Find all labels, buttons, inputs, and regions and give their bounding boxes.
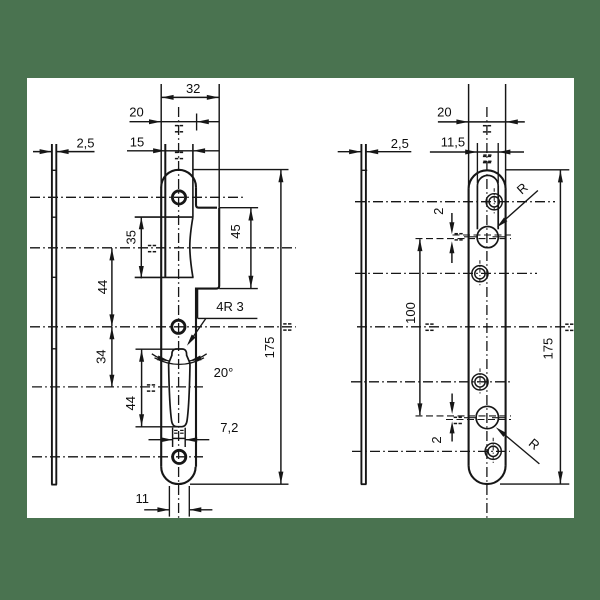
dim 175 right bottom extension: [500, 483, 569, 485]
white drawing sheet: [27, 78, 574, 518]
right side view: strip left edge: [360, 144, 362, 484]
screw hole 3 vertical centermark: [479, 368, 481, 395]
screw hole 4 outer: [485, 443, 501, 459]
dim 20 left arrow: [149, 119, 161, 124]
right centerline screw3: [351, 381, 512, 383]
right centerline screw4: [352, 450, 510, 452]
eq mark right CL middle: [425, 324, 433, 330]
dim 11 left arrow: [157, 507, 169, 512]
screw hole middle: [172, 320, 185, 333]
svg-text:175: 175: [540, 338, 555, 360]
dim 2 top tail below: [451, 253, 453, 264]
dim 35 bottom arrow: [139, 266, 144, 278]
left side view: strip left edge: [51, 144, 53, 485]
dim 100 top arrow: [417, 239, 422, 251]
R top leader: [500, 191, 538, 225]
svg-text:2: 2: [429, 436, 444, 443]
latch cutout bottom edge + 35-ext: [135, 276, 194, 278]
dim 20 right-view right tail: [506, 121, 525, 123]
svg-text:4R 3: 4R 3: [216, 299, 243, 314]
dim 2 bottom down arrow: [450, 402, 455, 414]
dim 20 right arrow: [197, 119, 209, 124]
screw hole 2 vertical centermark: [479, 260, 481, 287]
dim 20 extension stub: [196, 114, 198, 131]
dim 175 bottom extension: [190, 483, 289, 485]
dim 32 right arrow: [207, 95, 219, 100]
dim 11,5 line: [477, 151, 498, 153]
svg-text:2,5: 2,5: [391, 136, 409, 151]
dim 100 bottom arrow: [417, 403, 422, 415]
left centerline hole 3: [32, 456, 203, 458]
circle1 mid hatch right: [493, 236, 506, 238]
svg-text:11,5: 11,5: [441, 134, 465, 149]
dim 2,5 left arrow: [40, 149, 52, 154]
left centerline hole 2: [30, 326, 296, 328]
eq mark vCL upper: [175, 126, 183, 132]
dim 44 lower top arrow: [139, 350, 144, 362]
latch cutout right edge + 15-ext: [192, 144, 194, 217]
right centerline screw2: [355, 272, 537, 274]
svg-text:32: 32: [186, 81, 200, 96]
dim 32 right extension: [218, 84, 220, 208]
4R3 callout underline: [198, 317, 258, 319]
dim 7,2 right tail: [186, 439, 210, 441]
dim 11 right arrow: [189, 507, 201, 512]
dim 175 right top extension: [506, 169, 569, 171]
slot tab bottom edge: [173, 437, 186, 439]
screw hole 1 inner: [489, 197, 499, 207]
eq mark right vCL upper: [483, 126, 491, 132]
dim 175 line: [280, 170, 282, 484]
bolt slot cutout: [169, 349, 190, 427]
svg-text:44: 44: [95, 280, 110, 294]
dim 11,5 right tail: [499, 151, 524, 153]
slot tab left edge + 7,2-ext: [172, 428, 174, 447]
circle1 lower dashed line: [416, 238, 512, 240]
dim 44 lower bottom arrow: [139, 414, 144, 426]
eq mark circle2: [454, 417, 462, 423]
dim 20 right-view right extension: [505, 84, 507, 189]
dim 11,5 left arrow: [465, 150, 477, 155]
dim 32 left extension: [160, 84, 162, 187]
eq mark slot mid: [147, 385, 155, 391]
right side view: strip right edge: [365, 144, 367, 484]
dim 44 upper top arrow: [109, 248, 114, 260]
svg-text:175: 175: [262, 337, 277, 359]
R bottom leader arrow: [496, 427, 507, 437]
screw hole 1 vertical centermark: [493, 188, 495, 215]
dim 175 right top arrow: [558, 170, 563, 182]
screw hole 4 inner: [488, 446, 498, 456]
screw hole 2 inner: [475, 269, 485, 279]
dim 175 top extension: [193, 169, 289, 171]
left side view: tick (cutout bottom): [51, 276, 57, 278]
dim 20 right-view left arrow: [456, 119, 468, 124]
slot top inner arc: [477, 175, 498, 185]
dim 44 lower line: [141, 349, 143, 426]
dim 32 line: [161, 96, 219, 98]
dim 2 bottom tail above: [451, 394, 453, 405]
dim 2,5 right tail: [57, 151, 95, 153]
dim 45 line: [250, 208, 252, 288]
eq mark vCL lower: [175, 152, 183, 158]
dim 20 right-view right arrow: [506, 119, 518, 124]
svg-text:100: 100: [403, 302, 418, 324]
4R3 callout left edge: [197, 289, 199, 319]
bent lip curved edge: [190, 217, 193, 277]
dim 11 right tail: [190, 509, 213, 511]
dim 11,5 left extension: [476, 143, 478, 183]
svg-text:2: 2: [431, 208, 446, 215]
dim 20 right-view line: [469, 121, 506, 123]
dim 2 top tail above: [451, 213, 453, 224]
svg-text:11: 11: [136, 491, 150, 506]
eq mark 175 mid: [283, 324, 291, 330]
dim 11 right extension: [188, 486, 190, 517]
roller hole top (slot end circle): [477, 227, 498, 248]
right plate: bottom cap arc: [469, 466, 506, 485]
4R3 leader: [189, 318, 206, 343]
svg-text:7,2: 7,2: [220, 420, 238, 435]
dim 2,5 right arrow: [57, 149, 69, 154]
left side view: tick (cutout top): [51, 216, 57, 218]
eq mark 35 mid: [148, 246, 156, 252]
20deg right arrow tail: [189, 354, 206, 361]
screw hole 4 vertical centermark: [492, 438, 494, 465]
dim 7,2 left tail: [149, 439, 173, 441]
eq mark 175 right mid: [565, 324, 573, 330]
right centerline middle: [357, 326, 573, 328]
dim 2 bottom tail below: [451, 431, 453, 442]
svg-text:34: 34: [94, 349, 109, 363]
20deg left arrow tail: [152, 354, 170, 361]
left centerline hole 1: [30, 196, 244, 198]
dim 15 right arrow: [193, 148, 205, 153]
right vertical centerline: [486, 107, 488, 518]
left plate: tab right edge + tab bottom + lower right edge: [196, 208, 219, 467]
left plate: top dome arc: [161, 170, 196, 187]
dim 45 top extension: [219, 207, 258, 209]
right plate: top cap arc: [469, 170, 506, 188]
dim 35 top arrow: [139, 217, 144, 229]
svg-text:20°: 20°: [214, 365, 234, 380]
left centerline mid-slot: [32, 386, 203, 388]
screw hole 3 inner: [475, 377, 485, 387]
dim 175 top arrow: [278, 170, 283, 182]
dim 2 top up arrow: [449, 241, 454, 253]
dim 11 left extension: [168, 486, 170, 517]
R bottom leader: [499, 430, 540, 464]
eq mark right vCL lower: [483, 156, 491, 162]
dim 20 right-view left tail: [438, 121, 468, 123]
svg-text:15: 15: [130, 135, 144, 150]
latch cutout left edge / lip edge + 15-ext: [164, 144, 166, 277]
dim 2,5 right-view right arrow: [366, 149, 378, 154]
slot tab hatch marks: [174, 430, 184, 433]
dim 175 right bottom arrow: [558, 472, 563, 484]
dim 175 right line: [559, 170, 561, 484]
screw hole bottom: [173, 450, 186, 463]
dim 32 left arrow: [162, 95, 174, 100]
svg-text:35: 35: [124, 230, 139, 244]
dim 45 top arrow: [248, 209, 253, 221]
dim 45 bottom extension: [219, 288, 258, 290]
left centerline mid-35: [30, 247, 296, 249]
right side view: tick (plate top): [362, 169, 368, 171]
dim 11,5 right extension: [497, 143, 499, 183]
left side view: strip bottom edge: [51, 484, 57, 486]
slot left edge: [476, 186, 478, 230]
left side view: tick (plate top): [51, 169, 57, 171]
left side view: strip right edge: [55, 144, 57, 485]
roller hole bottom circle: [476, 406, 498, 428]
circle2 mid hatch left: [464, 417, 477, 419]
dim 11,5 right arrow: [498, 150, 510, 155]
dim 2 bottom up arrow: [450, 421, 455, 433]
dim 7,2 left arrow: [161, 437, 173, 442]
svg-text:R: R: [526, 435, 543, 453]
dim 44 upper bottom arrow: [109, 314, 114, 326]
slot tab right edge + 7,2-ext: [184, 428, 186, 447]
circle2 mid hatch right: [492, 417, 505, 419]
dim 20 line: [130, 121, 220, 123]
dim 11,5 left tail: [430, 151, 477, 153]
dim 15 line: [127, 150, 219, 152]
dim 34 bottom arrow: [109, 375, 114, 387]
svg-text:44: 44: [123, 396, 138, 410]
left plate: left edge: [160, 187, 162, 467]
dim 44 lower bottom extension: [136, 426, 178, 428]
right centerline screw1: [355, 201, 555, 203]
dim 44 upper line: [111, 248, 113, 326]
dim 7,2 right arrow: [185, 437, 197, 442]
left vertical centerline: [178, 107, 180, 518]
latch cutout top edge + 35-ext: [135, 216, 193, 218]
20deg left arrow: [157, 356, 169, 362]
dim 11 left tail: [144, 509, 169, 511]
screw hole 3 outer: [472, 374, 488, 390]
20deg right arrow: [189, 356, 201, 362]
dim 2 top down arrow: [449, 222, 454, 234]
R top leader arrow: [497, 218, 508, 228]
screw hole 1 outer: [486, 194, 502, 210]
dim 2,5 left tail: [33, 151, 51, 153]
svg-text:20: 20: [129, 105, 143, 120]
left plate: bottom cap arc: [161, 467, 195, 484]
screw hole top: [172, 191, 185, 204]
slot right edge: [497, 186, 499, 230]
right plate: left edge: [468, 189, 470, 466]
circle2 upper dashed line: [416, 415, 512, 417]
dim 100 line: [419, 239, 421, 415]
dim 2,5 right-view right tail: [366, 151, 411, 153]
20deg arc: [155, 358, 205, 365]
right side view: strip bottom edge: [361, 483, 367, 485]
eq mark circle1: [455, 234, 463, 240]
circle1 upper dashed line: [453, 234, 512, 236]
right plate: right edge: [505, 189, 507, 466]
dim 35 line: [140, 217, 142, 279]
screw hole 2 outer: [472, 266, 488, 282]
dim 20 right-view left extension: [468, 84, 470, 189]
dim 2,5 right-view left arrow: [349, 149, 361, 154]
svg-text:45: 45: [228, 224, 243, 238]
eq mark 11,5 mid: [483, 155, 491, 161]
dim 45 bottom arrow: [248, 276, 253, 288]
dim 175 bottom arrow: [278, 472, 283, 484]
dim 34 top arrow: [109, 327, 114, 339]
dim 44 lower top extension: [136, 348, 177, 350]
dim 15 left arrow: [153, 148, 165, 153]
svg-text:R: R: [514, 180, 531, 197]
circle2 lower dashed line: [446, 419, 511, 421]
circle1 mid hatch left: [464, 236, 477, 238]
svg-text:20: 20: [437, 105, 451, 120]
left side view: tick (slot top): [51, 348, 57, 350]
dim 34 line: [111, 327, 113, 387]
svg-text:2,5: 2,5: [76, 136, 94, 151]
4R3 leader arrow: [187, 335, 196, 346]
left plate: right edge upper + step to tab: [196, 187, 217, 208]
dim 2,5 right-view left tail: [338, 151, 361, 153]
